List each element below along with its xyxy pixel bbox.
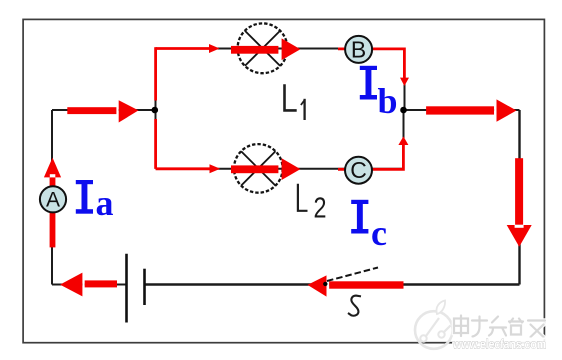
watermark chinese text (stylized) bbox=[454, 316, 545, 338]
label S bbox=[348, 296, 361, 316]
ammeter B bbox=[345, 36, 372, 63]
red current line: C to corner and up bbox=[338, 145, 403, 170]
wire: junction vertical riser bbox=[155, 49, 157, 169]
label Ib (blue) bbox=[360, 66, 398, 121]
small red arrowhead: bottom branch rightward bbox=[210, 164, 221, 173]
wire: right junction to right corner bbox=[404, 109, 520, 111]
wire: B corner down to right junction bbox=[404, 49, 406, 111]
svg-text:c: c bbox=[371, 213, 387, 253]
svg-text:C: C bbox=[350, 157, 367, 183]
thick red arrow: through lamp L2 bbox=[231, 158, 300, 180]
label L2 bbox=[298, 184, 327, 225]
battery: long plate bbox=[125, 254, 128, 323]
battery: short plate bbox=[143, 269, 146, 305]
switch pivot dot bbox=[323, 282, 327, 286]
lamp L2 bbox=[234, 144, 283, 193]
ammeter C bbox=[345, 157, 372, 184]
red current line: bottom branch from riser bbox=[156, 167, 210, 170]
wire: left vertical conductor bbox=[51, 110, 53, 285]
small red arrowhead: after C upward bbox=[398, 136, 408, 145]
red current line: riser lower part bbox=[154, 119, 157, 169]
red current line: riser upper part bbox=[154, 47, 157, 100]
watermark url text bbox=[452, 336, 548, 351]
thick red arrow: through lamp L1 bbox=[231, 38, 300, 60]
red current line: top branch from riser bbox=[156, 47, 210, 50]
thick red arrow: upward through ammeter A bbox=[44, 158, 61, 248]
watermark logo circle bbox=[415, 301, 453, 349]
wire: bottom conductor right of battery bbox=[145, 283, 520, 285]
svg-text:www.elecfans.com: www.elecfans.com bbox=[452, 336, 546, 351]
node: right junction dot bbox=[400, 107, 407, 114]
svg-text:2: 2 bbox=[314, 193, 327, 225]
small red arrowhead: after B downward bbox=[400, 78, 409, 86]
lamp L1 bbox=[238, 23, 288, 73]
svg-text:a: a bbox=[96, 183, 114, 223]
wire: C corner up to right junction bbox=[403, 110, 405, 169]
thick red arrow: bottom middle leftward (over switch wire) bbox=[308, 275, 404, 296]
thick red arrow: top-left toward junction bbox=[67, 100, 138, 122]
small red arrowhead: top branch rightward bbox=[209, 44, 220, 53]
wire: bottom conductor left of battery bbox=[52, 284, 126, 286]
red current line: B to corner and down bbox=[338, 49, 404, 78]
node: left junction dot bbox=[152, 107, 159, 114]
switch S blade bbox=[327, 268, 378, 282]
wire: top branch horizontal bbox=[156, 48, 405, 50]
thick red arrow: bottom left toward corner bbox=[60, 273, 117, 297]
wire: right vertical conductor bbox=[518, 110, 520, 285]
label Ia (blue) bbox=[76, 180, 114, 223]
ammeter A bbox=[40, 186, 66, 212]
svg-text:A: A bbox=[46, 189, 60, 212]
svg-text:b: b bbox=[378, 81, 398, 121]
wire: top-left horizontal to junction bbox=[52, 109, 155, 111]
label L1 bbox=[285, 84, 305, 120]
label Ic (blue) bbox=[351, 200, 387, 253]
thick red arrow: right side downward bbox=[507, 158, 532, 247]
svg-text:B: B bbox=[351, 36, 366, 62]
wire: bottom branch horizontal bbox=[156, 168, 404, 170]
thick red arrow: right of junction rightward bbox=[426, 99, 516, 121]
